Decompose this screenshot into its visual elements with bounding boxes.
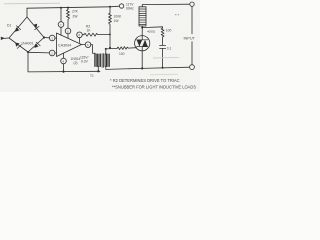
wire triac bottom <box>141 51 143 69</box>
svg-text:* R2 DETERMINES DRIVE TO TRIAC: * R2 DETERMINES DRIVE TO TRIAC <box>110 78 180 83</box>
svg-text:40502: 40502 <box>147 30 156 34</box>
svg-text:**SNUBBER FOR LIGHT INDUCTIVE: **SNUBBER FOR LIGHT INDUCTIVE LOADS <box>112 84 196 89</box>
wire top rail A <box>27 7 110 8</box>
wire secondary bottom lead to rail <box>106 67 142 70</box>
transformer T1 primary winding <box>95 54 101 67</box>
terminal input top <box>190 2 194 6</box>
node bridge right corner <box>43 36 45 38</box>
diode D4 mark lower-right <box>34 42 40 48</box>
node transformer gate junction <box>105 48 107 50</box>
svg-text:60Hz: 60Hz <box>126 7 134 11</box>
wire snubber top <box>142 27 162 28</box>
resistor R1 (rail to pin 5) <box>67 8 70 29</box>
wire gate line <box>106 47 117 50</box>
svg-text:100: 100 <box>119 52 125 56</box>
wire rail B top right <box>142 3 189 5</box>
node rail junction x61 <box>60 7 62 9</box>
diode D2 mark upper-right <box>34 24 39 30</box>
svg-text:100: 100 <box>166 29 172 33</box>
wire rail A stub to terminal <box>110 5 119 8</box>
bridge rectifier D1-D4 diamond <box>9 17 44 52</box>
resistor R5 snubber <box>161 28 164 45</box>
pin 3 circle <box>49 35 55 41</box>
scan artifact dashes <box>153 56 179 59</box>
wire secondary top lead <box>105 49 107 54</box>
pin 7 circle <box>58 22 64 28</box>
svg-text:T1: T1 <box>90 74 94 78</box>
node snubber rail junction <box>162 67 164 69</box>
terminal AC line left arrow <box>1 37 5 40</box>
wire gate to triac <box>128 47 136 49</box>
pin 8 circle <box>77 32 83 38</box>
wire diode branch from op-amp <box>63 53 65 58</box>
load box <box>139 7 146 26</box>
wire op-amp output <box>82 44 86 46</box>
transformer T1 core <box>101 54 103 68</box>
wire bridge + to pin 3 <box>44 37 49 39</box>
svg-text:D1: D1 <box>7 24 11 28</box>
wire pin3 stub <box>55 37 57 39</box>
svg-text:6.3V: 6.3V <box>81 60 89 64</box>
node triac bottom rail junction <box>141 67 143 69</box>
wire bridge - corner to pin 2 <box>29 51 50 54</box>
node rail corner x110 <box>109 6 111 8</box>
node snubber junction <box>141 27 143 29</box>
wire primary top lead <box>94 53 96 54</box>
resistor R3 vertical from rail <box>109 7 112 48</box>
wire bottom rail right <box>142 67 189 68</box>
resistor R2 <box>82 33 110 36</box>
wire load top lead <box>141 5 143 7</box>
transformer T1 secondary winding <box>105 54 109 67</box>
wire op-amp top to pin 8 circle <box>79 38 81 43</box>
wire right side cord upper <box>191 7 193 34</box>
wire output to transformer primary <box>91 45 95 54</box>
svg-text:1N4001: 1N4001 <box>21 42 34 46</box>
wire pin5 to op-amp <box>67 34 69 39</box>
capacitor C1 snubber <box>160 45 166 47</box>
node rail junction x68 <box>67 7 69 9</box>
node gate line junction <box>109 47 111 49</box>
triac triangles <box>137 40 143 47</box>
node bridge bottom corner <box>27 51 29 53</box>
wire pin7 to op-amp <box>60 27 62 35</box>
wire bridge bottom to ground rail <box>28 52 100 72</box>
node R2/R3 junction <box>109 34 111 36</box>
svg-text:INPUT: INPUT <box>184 37 196 41</box>
svg-text:* *: * * <box>175 13 180 18</box>
wire snubber bottom <box>162 49 164 68</box>
svg-text:100K: 100K <box>114 15 123 19</box>
node ground junction transformer <box>97 70 99 72</box>
op-amp U1 CA3094 triangle <box>57 33 82 57</box>
svg-text:0.1: 0.1 <box>167 47 172 51</box>
node ground junction diode branch <box>62 71 64 73</box>
terminal input bottom <box>190 65 195 70</box>
wire pin2 stub <box>55 52 57 54</box>
wire load bottom to triac <box>141 26 143 36</box>
pin 5 circle <box>65 28 71 34</box>
wire pin4 to ground rail <box>63 64 65 72</box>
svg-text:CA3094: CA3094 <box>58 44 71 48</box>
wire pin7 drop <box>60 8 62 22</box>
pin 4 circle <box>61 58 67 64</box>
wire left terminal to bridge <box>5 37 10 39</box>
resistor R4 gate <box>117 47 128 50</box>
pin 6 circle <box>85 42 91 48</box>
terminal AC hot <box>119 4 123 8</box>
wire primary bottom lead <box>97 67 99 72</box>
scan artifact streak <box>4 2 60 5</box>
wire right side cord lower <box>191 42 193 65</box>
pin 2 circle <box>49 50 55 56</box>
svg-text:27K: 27K <box>72 10 79 14</box>
wire rail A left corner to bridge top <box>26 8 28 17</box>
triac Q1 circle <box>135 36 150 51</box>
svg-text:(2): (2) <box>74 61 78 65</box>
diode D1 mark upper-left <box>15 26 21 32</box>
diode D3 mark lower-left <box>15 43 21 49</box>
